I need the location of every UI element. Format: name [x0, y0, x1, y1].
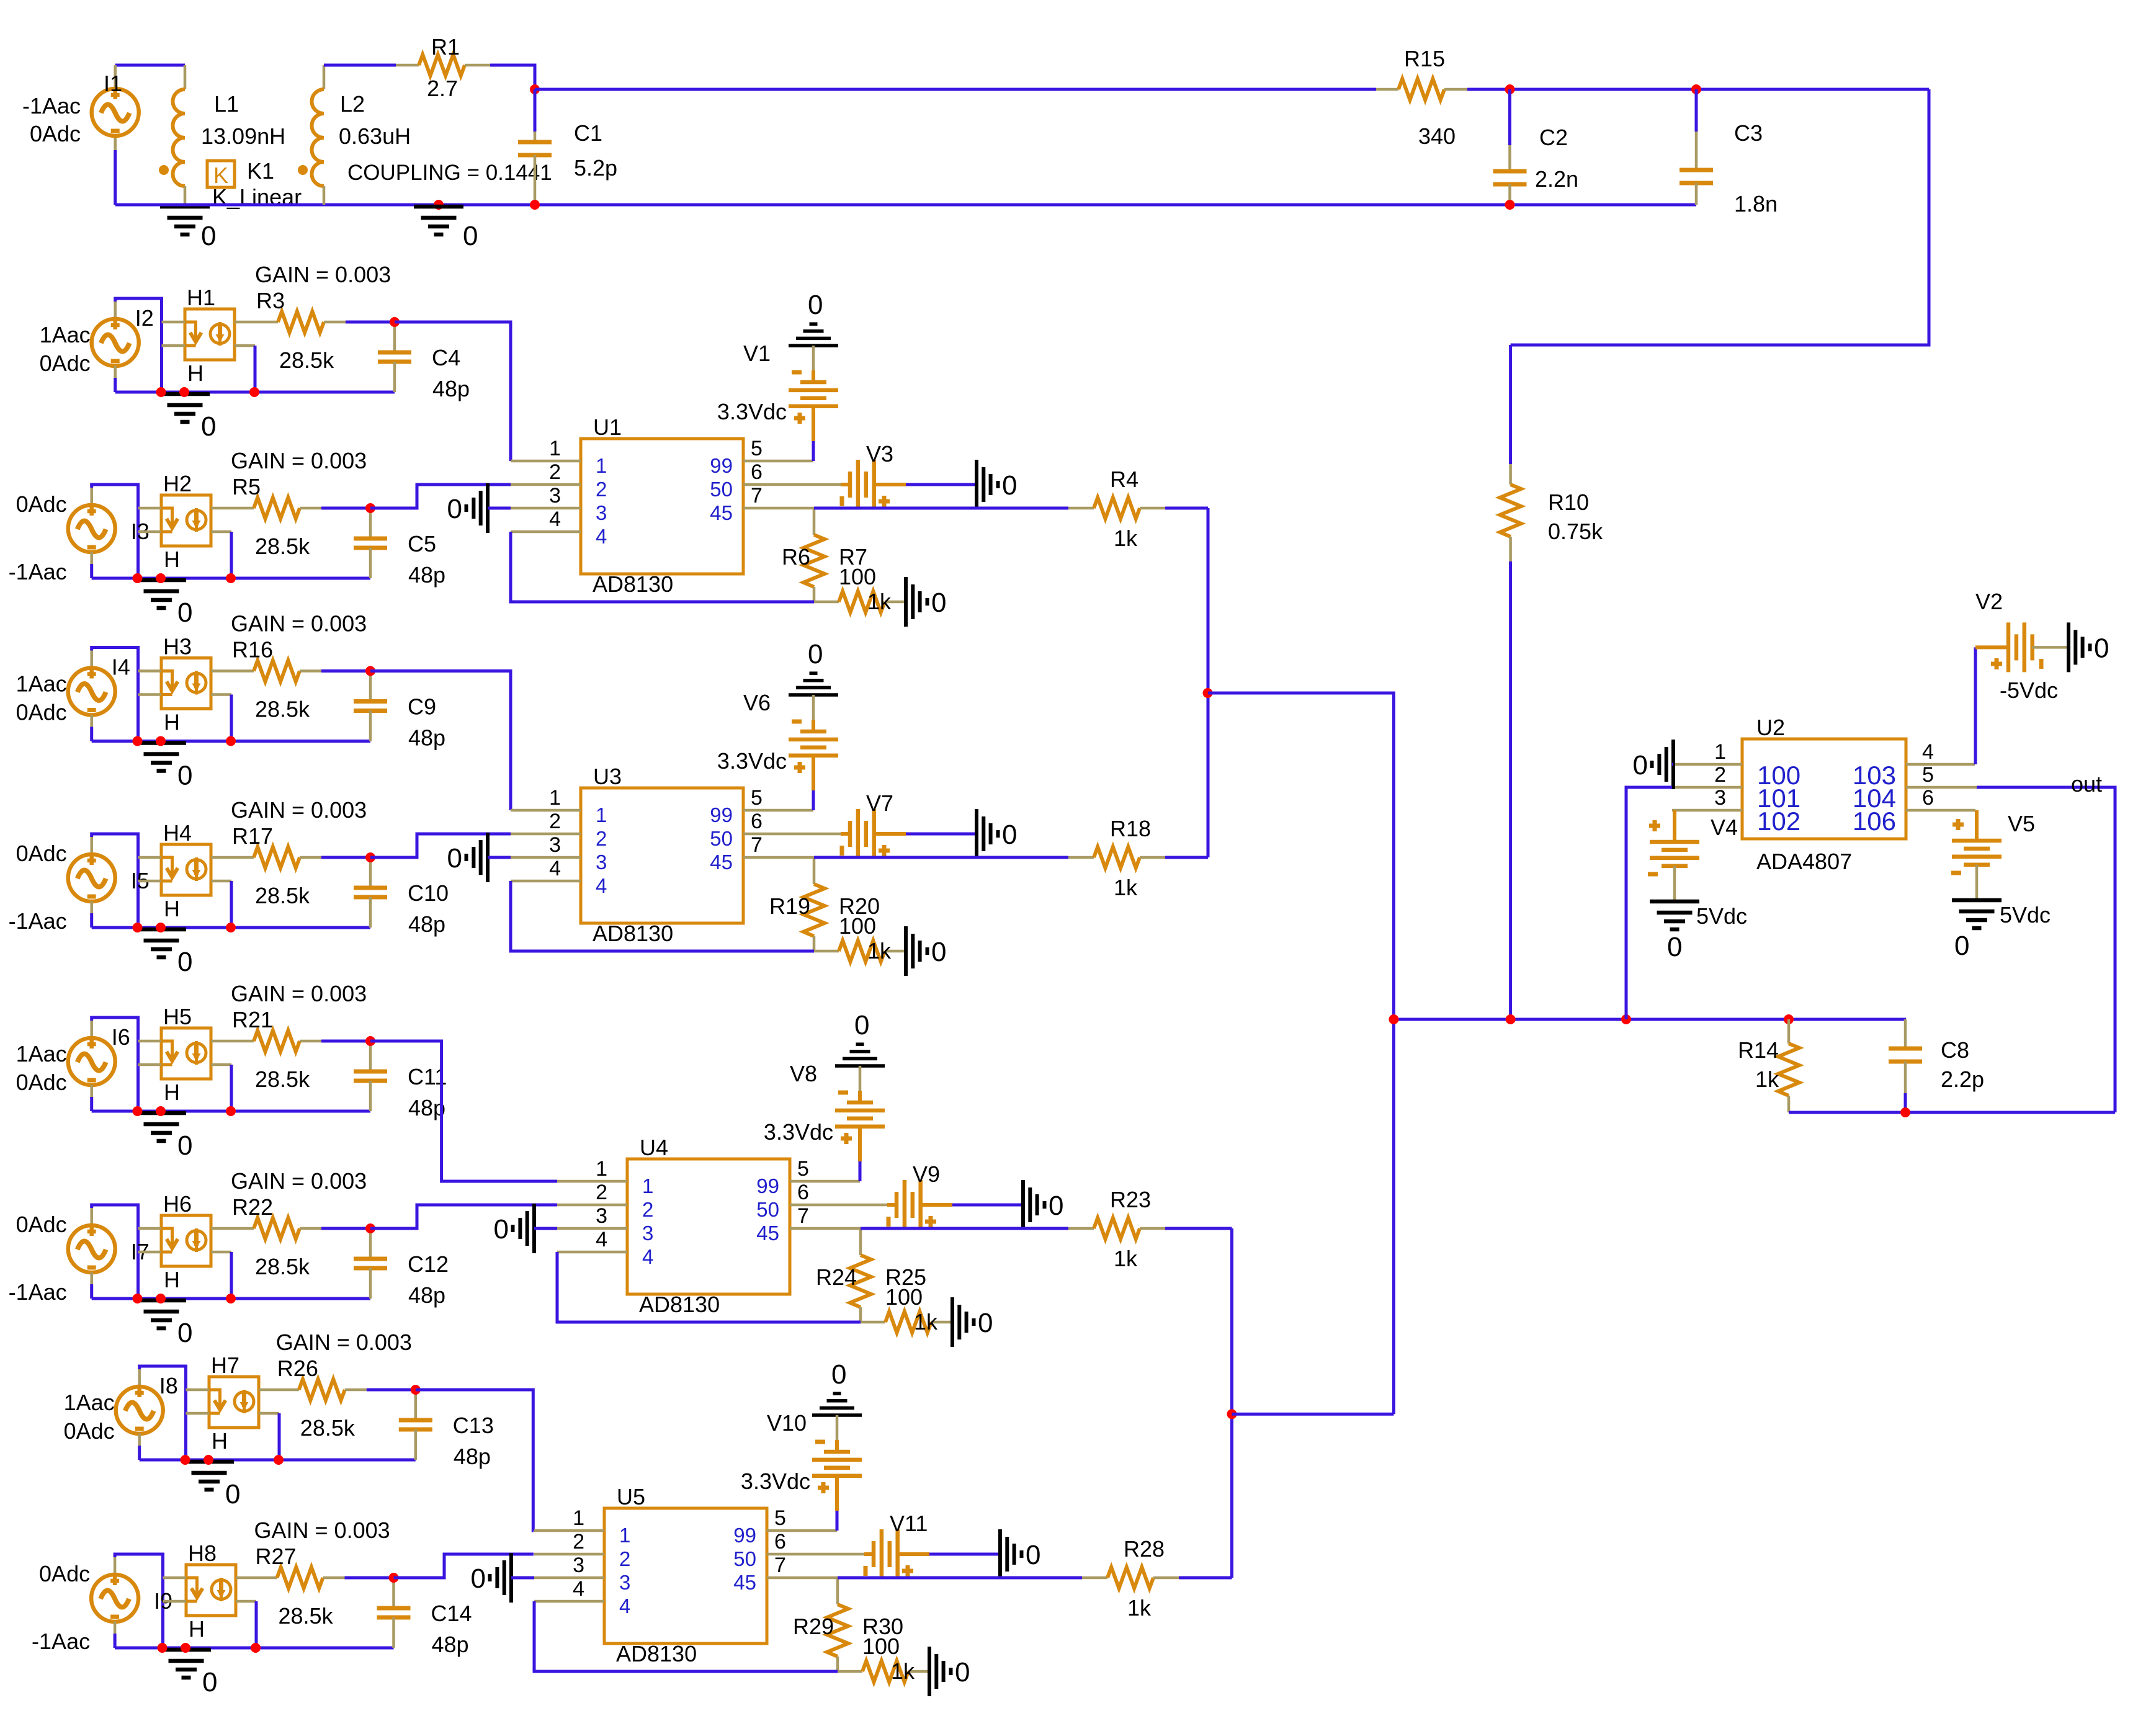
node (R27/C14) [389, 1573, 399, 1583]
svg-text:1k: 1k [1114, 1246, 1138, 1271]
svg-text:GAIN = 0.003: GAIN = 0.003 [254, 1518, 390, 1543]
svg-text:V10: V10 [767, 1410, 807, 1436]
svg-text:0Adc: 0Adc [64, 1418, 115, 1444]
svg-text:I2: I2 [135, 305, 154, 331]
svg-text:5: 5 [751, 786, 763, 810]
U5 pin stubs [534, 1529, 604, 1532]
svg-text:0: 0 [177, 597, 192, 628]
svg-text:R10: R10 [1548, 490, 1589, 515]
svg-text:H: H [212, 1428, 228, 1454]
wire cell bottom rail [92, 577, 370, 580]
svg-text:0: 0 [1633, 750, 1648, 780]
svg-text:2.2n: 2.2n [1535, 166, 1578, 192]
op-amp U2 (ADA4807) [1742, 739, 1906, 839]
svg-text:-1Aac: -1Aac [9, 908, 67, 934]
wire cell bottom rail [140, 1459, 416, 1462]
svg-text:0Adc: 0Adc [16, 491, 67, 517]
svg-text:3: 3 [1714, 786, 1726, 810]
node (R14 top) [1784, 1014, 1794, 1024]
ground 0 (V7) [975, 809, 978, 859]
svg-text:GAIN = 0.003: GAIN = 0.003 [231, 448, 367, 473]
svg-text:V5: V5 [2008, 811, 2035, 836]
H source H6 [161, 1215, 211, 1266]
svg-text:48p: 48p [408, 911, 445, 937]
node (R17/C10) [365, 852, 375, 862]
svg-text:4: 4 [596, 1228, 607, 1251]
svg-text:0: 0 [808, 290, 823, 320]
wire feedback rail [1393, 1018, 1906, 1021]
svg-text:1k: 1k [1114, 875, 1138, 900]
inductor L1 13.09nH [184, 65, 187, 89]
svg-text:6: 6 [751, 810, 763, 833]
wire R1 to C1 corner [490, 65, 535, 89]
svg-text:99: 99 [710, 454, 733, 477]
svg-text:H: H [189, 1616, 205, 1642]
svg-text:50: 50 [710, 827, 733, 850]
svg-text:100: 100 [885, 1284, 923, 1310]
resistor R5 28.5k [211, 507, 254, 510]
wire cell bottom rail [92, 1110, 370, 1113]
svg-text:0: 0 [1002, 470, 1017, 501]
svg-text:99: 99 [733, 1524, 756, 1547]
svg-text:1: 1 [642, 1174, 653, 1197]
svg-text:AD8130: AD8130 [639, 1292, 720, 1317]
svg-text:I8: I8 [159, 1373, 178, 1398]
U3 pin stubs [511, 809, 581, 812]
svg-text:-5Vdc: -5Vdc [2000, 677, 2058, 703]
svg-text:3.3Vdc: 3.3Vdc [741, 1469, 810, 1494]
svg-text:1: 1 [596, 454, 607, 477]
voltage source V5 5Vdc [1975, 810, 1979, 841]
svg-text:H: H [164, 896, 180, 921]
node (C1 bottom) [530, 200, 540, 210]
svg-text:3.3Vdc: 3.3Vdc [717, 748, 787, 774]
svg-text:0: 0 [1667, 932, 1682, 962]
resistor R26 28.5k [259, 1388, 299, 1392]
svg-text:48p: 48p [454, 1444, 491, 1469]
wire cell bottom rail [92, 740, 370, 743]
ground 0 (cell 7) [184, 1460, 234, 1464]
wire I6 bottom [90, 1085, 93, 1098]
battery V11 (pin6 to ground) [864, 1552, 874, 1556]
op-amp U5 (AD8130) [604, 1508, 767, 1643]
svg-text:5: 5 [751, 437, 763, 460]
ground 0 (U4 pin3) [532, 1204, 536, 1253]
wire I5 top [92, 834, 138, 928]
svg-text:-1Aac: -1Aac [9, 559, 67, 584]
svg-text:V9: V9 [913, 1161, 940, 1187]
svg-text:V2: V2 [1975, 589, 2003, 614]
svg-text:0Adc: 0Adc [16, 700, 67, 725]
current source I9 [91, 1575, 138, 1622]
ground 0 (V4) [1650, 900, 1699, 904]
junction dots cell 3 [133, 736, 143, 746]
svg-text:I6: I6 [112, 1024, 130, 1050]
current source I4 [68, 668, 115, 715]
svg-text:3: 3 [642, 1222, 653, 1245]
svg-text:50: 50 [733, 1547, 756, 1570]
svg-text:106: 106 [1853, 807, 1896, 836]
svg-text:48p: 48p [408, 1095, 445, 1120]
svg-text:4: 4 [549, 508, 561, 531]
H source H2 [161, 495, 211, 546]
wire pin4 feedback [511, 881, 814, 951]
svg-text:2: 2 [549, 460, 561, 484]
ground 0 (I1 loop) [160, 205, 210, 209]
svg-text:0: 0 [201, 411, 216, 442]
H source H1 [185, 309, 235, 360]
svg-text:R16: R16 [232, 637, 273, 663]
svg-text:0: 0 [931, 937, 946, 967]
svg-text:H1: H1 [187, 285, 215, 310]
svg-text:6: 6 [1922, 786, 1934, 810]
U4 pin stubs [557, 1180, 627, 1183]
current source I8 [116, 1387, 163, 1434]
svg-text:0: 0 [2094, 633, 2109, 663]
wire pin4 feedback [557, 1252, 861, 1322]
svg-text:5: 5 [1922, 763, 1934, 787]
svg-text:C4: C4 [432, 345, 460, 370]
svg-text:100: 100 [862, 1634, 900, 1659]
current source I2 [92, 319, 139, 366]
wire bus vertical (R23/R28 join) [1230, 1228, 1233, 1578]
ground 0 (R7) [904, 577, 908, 627]
svg-text:3: 3 [596, 1204, 607, 1228]
phase dot L2 [298, 165, 308, 175]
svg-text:R15: R15 [1404, 46, 1445, 71]
svg-text:H6: H6 [163, 1191, 192, 1217]
svg-text:H: H [164, 547, 180, 572]
svg-text:R19: R19 [769, 893, 810, 919]
svg-text:1.8n: 1.8n [1734, 191, 1778, 217]
svg-text:4: 4 [596, 525, 607, 548]
wire R15 to corner [1467, 88, 1929, 91]
wire R27 output [394, 1554, 534, 1578]
capacitor C3 1.8n [1695, 89, 1698, 132]
resistor R23 1k [1094, 1218, 1140, 1239]
battery V7 (pin6 to ground) [841, 832, 850, 836]
svg-text:7: 7 [751, 484, 763, 508]
wire V10 to pin5 [835, 1476, 839, 1511]
svg-text:4: 4 [619, 1594, 630, 1617]
svg-text:48p: 48p [408, 1282, 445, 1308]
ground 0 (R25) [951, 1297, 954, 1347]
svg-text:1Aac: 1Aac [40, 322, 91, 347]
resistor R24 100 (vertical) [859, 1228, 862, 1255]
wire H pins [138, 856, 162, 859]
svg-text:99: 99 [710, 803, 733, 826]
wire R22 output [370, 1205, 557, 1228]
svg-text:0Adc: 0Adc [40, 351, 91, 376]
svg-text:6: 6 [751, 460, 763, 484]
svg-text:2: 2 [573, 1530, 584, 1554]
wire H pins [138, 1040, 162, 1043]
svg-text:V11: V11 [890, 1511, 928, 1536]
wire I5 bottom [90, 901, 93, 914]
wire V8 to pin5 [858, 1127, 862, 1161]
ground 0 (R30) [928, 1647, 931, 1696]
svg-text:3.3Vdc: 3.3Vdc [717, 399, 787, 424]
svg-text:H4: H4 [163, 820, 192, 846]
svg-text:0Adc: 0Adc [16, 1212, 67, 1237]
svg-text:1: 1 [549, 437, 561, 460]
wire pin4 feedback [511, 532, 814, 602]
wire lower bus branch [1232, 1413, 1394, 1416]
wire I8 top [140, 1366, 186, 1460]
svg-text:0: 0 [854, 1010, 869, 1040]
svg-text:2: 2 [596, 827, 607, 850]
ground 0 (V3) [975, 460, 978, 509]
svg-text:0: 0 [177, 947, 192, 977]
svg-text:7: 7 [774, 1554, 786, 1577]
current source I3 [68, 505, 115, 552]
svg-text:R21: R21 [232, 1007, 273, 1032]
U1 pin stubs [511, 460, 581, 463]
node (C1 top) [530, 84, 540, 94]
svg-text:C9: C9 [408, 694, 436, 720]
svg-text:1Aac: 1Aac [16, 671, 67, 697]
svg-text:0.75k: 0.75k [1548, 519, 1603, 544]
svg-text:0Adc: 0Adc [30, 121, 81, 146]
wire H pins [186, 1388, 210, 1392]
svg-text:H: H [164, 1267, 180, 1292]
ground 0 (U3 pin3) [486, 833, 490, 882]
node (R10 bottom) [1506, 1014, 1516, 1024]
wire R21 output [370, 1041, 557, 1181]
capacitor C5 48p [369, 511, 372, 539]
svg-text:2.2p: 2.2p [1941, 1066, 1984, 1092]
svg-text:0: 0 [978, 1308, 993, 1338]
svg-text:0.63uH: 0.63uH [339, 123, 411, 149]
ground 0 (cell 1) [160, 392, 210, 396]
svg-text:H3: H3 [163, 634, 192, 660]
node (R16/C9) [365, 666, 375, 676]
ground 0 (cell 8) [161, 1648, 211, 1652]
svg-text:0: 0 [177, 761, 192, 791]
svg-text:0: 0 [1026, 1540, 1040, 1570]
svg-text:0: 0 [494, 1214, 509, 1245]
capacitor C1 5.2p [534, 89, 537, 132]
node (R26/C13) [411, 1385, 421, 1395]
wire I2 top [115, 298, 162, 392]
svg-text:48p: 48p [432, 1632, 469, 1657]
op-amp U1 (AD8130) [581, 439, 743, 574]
svg-text:28.5k: 28.5k [279, 1603, 334, 1629]
wire I4 bottom [90, 715, 93, 727]
svg-text:3: 3 [619, 1571, 630, 1594]
svg-text:H2: H2 [163, 471, 192, 496]
svg-text:48p: 48p [432, 376, 470, 401]
svg-text:1: 1 [573, 1506, 584, 1530]
svg-text:13.09nH: 13.09nH [201, 123, 285, 149]
wire V1 to pin5 [812, 406, 815, 441]
svg-text:100: 100 [839, 564, 876, 589]
svg-text:99: 99 [756, 1174, 779, 1197]
svg-text:R17: R17 [232, 823, 273, 849]
svg-text:1: 1 [549, 786, 561, 810]
resistor R30 1k (horizontal) [838, 1670, 862, 1673]
wire right edge loop [1511, 89, 1929, 345]
inductor L2 0.63uH [323, 65, 326, 89]
svg-text:U1: U1 [593, 414, 622, 440]
svg-text:28.5k: 28.5k [300, 1415, 356, 1441]
svg-text:V3: V3 [866, 441, 893, 467]
resistor R3 28.5k [235, 321, 278, 324]
resistor R15 340 [1376, 88, 1398, 91]
svg-text:28.5k: 28.5k [279, 347, 334, 373]
svg-text:R26: R26 [277, 1356, 318, 1381]
svg-text:0: 0 [471, 1563, 486, 1594]
wire top loop I1/L1 [115, 64, 185, 67]
wire R3 output [395, 322, 511, 461]
svg-text:I1: I1 [104, 71, 122, 96]
svg-text:0: 0 [1954, 931, 1969, 961]
svg-text:45: 45 [733, 1571, 756, 1594]
resistor R21 28.5k [211, 1040, 254, 1043]
svg-text:C2: C2 [1539, 125, 1568, 150]
svg-text:50: 50 [710, 478, 733, 501]
H source H5 [161, 1028, 211, 1079]
svg-text:ADA4807: ADA4807 [1756, 849, 1852, 874]
svg-text:100: 100 [839, 913, 876, 939]
svg-text:C5: C5 [408, 531, 436, 557]
wire I3 bottom [90, 552, 93, 565]
ground 0 (cell 4) [136, 928, 186, 932]
resistor R25 1k (horizontal) [861, 1321, 885, 1324]
wire top rail to R15 [535, 88, 1376, 91]
svg-text:R5: R5 [232, 474, 261, 499]
svg-text:28.5k: 28.5k [255, 1066, 310, 1092]
svg-text:R23: R23 [1110, 1187, 1151, 1212]
wire R5 output [370, 485, 511, 508]
svg-text:AD8130: AD8130 [616, 1641, 697, 1666]
wire R16 output [370, 671, 511, 811]
svg-text:V4: V4 [1711, 815, 1738, 840]
svg-text:4: 4 [596, 874, 607, 897]
current source I7 [68, 1225, 115, 1272]
node (lower bus) [1227, 1409, 1237, 1419]
svg-text:2: 2 [596, 1181, 607, 1204]
wire bottom rail (transformer) [115, 203, 1696, 207]
svg-text:U2: U2 [1756, 715, 1785, 740]
ground 0 (cell 3) [136, 741, 186, 745]
op-amp U4 (AD8130) [627, 1159, 790, 1294]
junction dots cell 5 [133, 1106, 143, 1116]
ground 0 (cell 6) [136, 1299, 186, 1303]
svg-text:1k: 1k [1114, 525, 1138, 551]
svg-text:0: 0 [201, 221, 216, 251]
node (R3/C4) [390, 317, 400, 327]
svg-text:3: 3 [596, 851, 607, 874]
wire R28 line [838, 1576, 1082, 1580]
svg-text:R3: R3 [256, 288, 285, 313]
svg-text:L1: L1 [214, 91, 239, 117]
phase dot L1 [159, 165, 169, 175]
wire H pins [162, 321, 186, 324]
wire I8 bottom [138, 1434, 141, 1446]
svg-text:out: out [2071, 771, 2102, 797]
battery V3 (pin6 to ground) [841, 483, 850, 486]
ground 0 (cell 5) [136, 1111, 186, 1116]
svg-text:28.5k: 28.5k [255, 1254, 310, 1279]
battery V9 (pin6 to ground) [887, 1203, 897, 1207]
ground 0 (U5 pin3) [509, 1553, 513, 1603]
svg-text:0: 0 [808, 639, 823, 669]
ground 0 (V11) [998, 1529, 1002, 1579]
resistor R20 1k (horizontal) [814, 950, 839, 953]
ground 0 (cell 2) [136, 578, 186, 583]
svg-text:4: 4 [549, 857, 561, 880]
svg-text:1Aac: 1Aac [16, 1041, 67, 1066]
current source I5 [68, 854, 115, 901]
svg-text:45: 45 [710, 851, 733, 874]
svg-text:1Aac: 1Aac [64, 1390, 115, 1415]
svg-text:V8: V8 [790, 1061, 817, 1086]
svg-text:2: 2 [1714, 763, 1726, 787]
svg-text:2: 2 [619, 1547, 630, 1570]
svg-text:GAIN = 0.003: GAIN = 0.003 [231, 1168, 367, 1194]
svg-text:C10: C10 [408, 880, 449, 906]
node (bus/rail) [1389, 1014, 1398, 1024]
wire I7 bottom [90, 1272, 93, 1285]
svg-text:1: 1 [1714, 740, 1726, 764]
ground 0 (U1 pin3) [486, 483, 490, 533]
resistor R19 100 (vertical) [813, 857, 816, 884]
wire R4 line [814, 507, 1068, 510]
U2 pin stubs [1672, 763, 1742, 766]
svg-text:1k: 1k [867, 938, 892, 964]
capacitor C9 48p [369, 674, 372, 702]
svg-text:0: 0 [1049, 1191, 1063, 1221]
node (C8 bottom) [1900, 1107, 1910, 1117]
svg-text:GAIN = 0.003: GAIN = 0.003 [231, 797, 367, 823]
node (bus left) [1203, 688, 1213, 698]
resistor R28 1k [1107, 1567, 1153, 1588]
svg-text:7: 7 [797, 1204, 809, 1228]
resistor R16 28.5k [211, 669, 254, 673]
junction dots cell 1 [156, 387, 166, 397]
ground 0 (R20) [904, 926, 908, 976]
wire I9 top [115, 1554, 163, 1648]
svg-text:GAIN = 0.003: GAIN = 0.003 [255, 262, 391, 287]
svg-text:-1Aac: -1Aac [32, 1629, 90, 1654]
svg-text:1: 1 [596, 803, 607, 826]
resistor R10 0.75k [1509, 345, 1512, 464]
svg-text:2: 2 [596, 478, 607, 501]
resistor R22 28.5k [211, 1227, 254, 1230]
svg-text:0: 0 [202, 1667, 217, 1697]
svg-text:R1: R1 [431, 34, 460, 60]
svg-text:H: H [164, 1080, 180, 1105]
svg-text:V1: V1 [743, 341, 771, 366]
wire I4 top [92, 648, 138, 741]
node (C2 top) [1505, 84, 1515, 94]
H source H4 [161, 844, 211, 895]
wire L2 top [324, 64, 396, 67]
svg-text:R6: R6 [782, 544, 810, 570]
svg-text:4: 4 [642, 1245, 653, 1268]
svg-text:R14: R14 [1738, 1037, 1779, 1063]
svg-text:R29: R29 [793, 1614, 834, 1639]
resistor R1 2.7 [419, 55, 465, 76]
svg-text:AD8130: AD8130 [593, 571, 673, 597]
resistor R7 1k (horizontal) [814, 601, 839, 604]
node (C2 bottom) [1505, 200, 1515, 210]
svg-text:0: 0 [463, 221, 478, 251]
resistor R4 1k [1094, 498, 1140, 519]
wire H pins [163, 1576, 187, 1580]
wire I3 top [92, 485, 138, 578]
